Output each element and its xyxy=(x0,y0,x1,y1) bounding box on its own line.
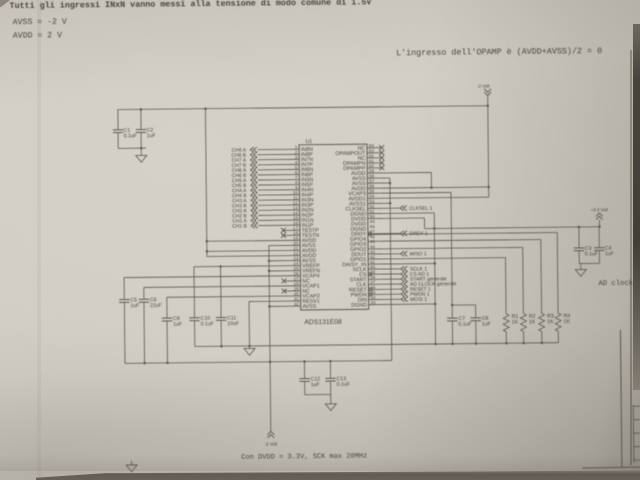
wire C4 bottom lead xyxy=(598,250,600,263)
wire C8 top lead xyxy=(475,305,477,318)
ground (C3 C4) xyxy=(575,270,586,277)
wire R3 bottom lead xyxy=(541,331,543,342)
frame border bottom xyxy=(582,467,640,468)
node junction +3.3V / DVDD rail xyxy=(598,226,601,229)
frame revision row 2 xyxy=(633,419,640,421)
wire pin54 AVDD1 xyxy=(368,197,489,198)
resistor R2 1K xyxy=(520,314,526,332)
wire AVSS right rail vertical xyxy=(390,178,392,361)
node junction C2 / top wire xyxy=(140,108,143,111)
ground (C12 C13) xyxy=(325,404,336,411)
connector CH7 A xyxy=(250,157,253,162)
node junction AVDD rail / top wire xyxy=(204,107,207,110)
paper subtle left fold shading xyxy=(37,0,41,480)
wire pin28 VCAP1 to C6 xyxy=(144,286,301,288)
node junction AVSS rail / bottom AVSS wire xyxy=(269,361,272,364)
resistor R3 1K xyxy=(539,313,545,331)
capacitor C2 1uF xyxy=(136,129,146,131)
wire C9 bottom lead xyxy=(166,321,168,363)
capacitor C4 1uF xyxy=(594,247,604,249)
no-connect X pin64 xyxy=(379,145,384,150)
connector RESET 1 xyxy=(401,287,404,292)
wire pin20 AVSS xyxy=(269,244,300,246)
node junction DVDD / DGND vertical crossing xyxy=(433,227,436,230)
node junction -2V rail / top wire xyxy=(487,104,490,107)
wire AVSS rail vertical xyxy=(269,246,271,432)
wire C13 bottom lead xyxy=(330,381,332,394)
wire pin58 AVSS xyxy=(367,177,389,179)
wire C4 top lead xyxy=(598,227,600,248)
wire top -2V horizontal rail xyxy=(118,106,488,110)
wire C3 top lead xyxy=(578,227,580,248)
wire pin19 AVDD xyxy=(207,239,300,242)
node junction pin19 xyxy=(206,240,209,243)
wire pin12 IN3P xyxy=(258,204,299,206)
wire C11 top lead xyxy=(220,266,223,317)
wire C7 bottom lead xyxy=(451,321,453,344)
photo dark edge right xyxy=(633,24,640,390)
connector CH2 B xyxy=(251,213,254,218)
wire pin55 VCAP3 xyxy=(368,191,451,194)
wire C1 bottom lead xyxy=(117,133,119,149)
no-connect X pin63 xyxy=(379,150,384,155)
resistor R1 1K xyxy=(503,314,509,332)
wire +3.3V stem xyxy=(598,220,600,227)
frame revision row 5 xyxy=(634,459,640,461)
connector CH3 B xyxy=(251,203,254,208)
frame revision row 1 xyxy=(633,405,640,407)
wire C13 ground stem xyxy=(330,394,332,403)
connector CH8 A xyxy=(250,147,253,152)
wire pin51 DGND xyxy=(368,212,434,215)
ground (RESV1 / DGND) xyxy=(244,348,255,355)
pin47 active-low bubble xyxy=(368,232,371,235)
node junction pin59/pin56 wire xyxy=(430,186,433,189)
connector CH7 B xyxy=(250,162,253,167)
connector MISO 1 xyxy=(401,251,404,256)
capacitor C10 0.1uF xyxy=(189,317,199,319)
wire R1 top lead xyxy=(504,258,507,314)
wire pin40 SCLK xyxy=(368,268,400,270)
node junction R3 bottom xyxy=(541,342,544,345)
wire pin46 GPIO4 to R4 xyxy=(368,233,557,235)
wire ground stem C1C2 xyxy=(140,148,142,155)
wire pin63 stub (no connect) xyxy=(367,152,380,154)
no-connect X pin27 xyxy=(282,279,287,284)
wire pin34 DIN xyxy=(369,298,401,300)
wire pin35 PWDN xyxy=(369,293,401,295)
node junction C3 top xyxy=(578,226,581,229)
node junction -2V rail / pin56 xyxy=(487,186,490,189)
frame revision box column xyxy=(632,405,635,463)
capacitor C9 1uF xyxy=(162,317,172,319)
no-connect X pin29 xyxy=(282,289,287,294)
connector CH4 A xyxy=(251,188,254,193)
top left corner nub xyxy=(0,0,10,7)
node junction C12 top xyxy=(303,360,306,363)
wire pin15 IN1N xyxy=(258,219,299,221)
connector AD CLOCK generale xyxy=(401,281,404,286)
wire C6 top lead xyxy=(143,287,145,299)
wire R1 bottom lead xyxy=(505,332,507,343)
wire pin7 IN5N xyxy=(258,179,299,181)
resistor R4 1K xyxy=(555,313,561,331)
wire C1 top lead xyxy=(117,110,119,130)
wire AVDD rail vertical xyxy=(205,109,207,257)
no-connect X pin17 xyxy=(281,228,286,233)
wire pin5 IN6N xyxy=(258,168,299,170)
wire RESV1 stem xyxy=(248,302,250,349)
connector CH6 A xyxy=(251,167,254,172)
pin35 active-low bubble xyxy=(369,293,372,296)
wire pin41 DAISY_IN xyxy=(368,262,434,265)
connector CH1 B xyxy=(251,223,254,228)
node junction C6 bottom xyxy=(143,362,146,365)
wire C2 bottom lead xyxy=(140,132,142,148)
wire pin45 GPIO3 to R3 xyxy=(368,239,541,241)
node junction C2 bottom xyxy=(140,147,143,150)
connector CH3 A xyxy=(251,198,254,203)
wire pin4 IN7P xyxy=(258,163,299,165)
wire pin9 IN4N xyxy=(258,189,299,191)
connector CH6 B xyxy=(251,172,254,177)
wire pin53 AVSS1 xyxy=(368,202,390,204)
node junction R1 bottom xyxy=(505,342,508,345)
power symbol -2 Volt (bottom) xyxy=(267,431,274,434)
node junction C13 top xyxy=(329,360,332,363)
wire pin31 RESV1 xyxy=(249,300,301,303)
wire pin57 AVSS xyxy=(367,182,389,184)
wire pin26 VCAP4 to C5 xyxy=(124,276,300,278)
frame revision row 4 xyxy=(634,446,640,448)
node junction DGND vertical / DGND rail xyxy=(434,343,437,346)
wire pin32 AVSS xyxy=(269,305,300,307)
wire pin29 stub (no connect) xyxy=(284,290,300,292)
wire C12 top lead xyxy=(303,361,305,378)
wire C7-C8 top rail xyxy=(452,304,475,306)
connector CLKSEL 1 xyxy=(400,206,403,211)
wire pin64 stub (no connect) xyxy=(367,147,380,149)
wire pin52 CLKSEL xyxy=(368,207,400,209)
ground (C1 C2) xyxy=(136,155,147,162)
connector CH5 A xyxy=(251,177,254,182)
node junction pin23 xyxy=(268,260,271,263)
pin36 active-low bubble xyxy=(369,288,372,291)
node junction pin33 xyxy=(434,303,437,306)
wire C3C4 ground stem xyxy=(580,264,582,270)
wire pin3 IN7N xyxy=(258,158,299,160)
wire DGND bottom rail xyxy=(195,343,559,347)
wire C3-C4 bottom xyxy=(579,262,599,264)
frame border right vertical xyxy=(620,330,621,467)
wire pin1 IN8N xyxy=(258,148,299,150)
connector CS AD 1 xyxy=(401,271,404,276)
wire C12-C13 bottom xyxy=(305,393,331,395)
wire pin27 stub (no connect) xyxy=(284,280,300,282)
wire R2 top lead xyxy=(522,247,525,313)
no-connect X pin62 xyxy=(379,155,384,160)
capacitor C5 1uF xyxy=(119,298,129,300)
capacitor C8 1uF xyxy=(471,317,481,319)
U1 left pin numbers xyxy=(292,145,299,307)
connector MOSI 1 xyxy=(401,297,404,302)
node junction C11 top xyxy=(219,265,222,268)
ground (floating, bottom left) xyxy=(131,461,133,465)
photo dark edge bottom xyxy=(36,469,640,480)
soft shadow above bottom edge xyxy=(0,455,640,471)
wire C10 bottom lead xyxy=(194,321,196,347)
wire pin14 IN2P xyxy=(258,214,299,216)
wire C3 bottom lead xyxy=(578,251,580,264)
wire R4 bottom lead xyxy=(557,331,559,342)
capacitor C1 0.1uF xyxy=(113,129,123,131)
wire pin22 AVDD xyxy=(207,255,300,258)
wire pin60 stub (no connect) xyxy=(367,167,380,169)
wire pin21 AVDD xyxy=(207,249,300,252)
wire C2 top lead xyxy=(140,109,142,129)
wire pin43 DOUT xyxy=(368,253,400,255)
wire pin56 AVDD to -2V rail xyxy=(367,187,488,188)
wire pin39 CS xyxy=(368,273,400,275)
wire pin62 stub (no connect) xyxy=(367,157,380,159)
U1 left pin names xyxy=(301,147,321,310)
wire pin17 stub (no connect) xyxy=(283,229,299,231)
capacitor C13 0.1uF xyxy=(325,377,335,379)
connector START generale xyxy=(401,276,404,281)
wire VCAP3 vertical to C7 xyxy=(451,192,452,318)
wire pin18 stub (no connect) xyxy=(283,234,299,236)
node junction pin25 xyxy=(268,270,271,273)
wire R3 top lead xyxy=(540,239,543,313)
pin39 active-low bubble xyxy=(369,273,372,276)
wire pin25 VREFN xyxy=(269,270,300,272)
connector SCLK 1 xyxy=(401,266,404,271)
node junction C11 bottom xyxy=(220,345,223,348)
wire AVSS bottom rail xyxy=(125,361,392,364)
wire C6 bottom lead xyxy=(143,302,146,363)
wire pin11 IN3N xyxy=(258,199,299,201)
wire pin44 GPIO2 to R2 xyxy=(368,247,523,249)
wire C5 bottom lead xyxy=(123,302,126,363)
wire pin59 drop xyxy=(430,172,432,187)
wire pin23 AVSS xyxy=(269,260,300,262)
wire C1-C2 bottom xyxy=(118,147,146,149)
capacitor C6 22uF xyxy=(139,298,149,300)
wire pin36 RESET xyxy=(369,288,401,290)
op-amp/ADC U1 ADS131E08 body xyxy=(299,144,369,310)
wire -2V rail vertical (top right) xyxy=(488,95,489,197)
node junction C7/C8 rail xyxy=(451,304,454,307)
no-connect X pin61 xyxy=(379,160,384,165)
wire pin6 IN6P xyxy=(258,174,299,176)
wire pin47 DRDY xyxy=(368,232,400,234)
wire pin61 stub (no connect) xyxy=(367,162,380,164)
connector CH2 A xyxy=(251,208,254,213)
node junction pin53 xyxy=(389,202,392,205)
node junction R2 bottom xyxy=(522,342,525,345)
wire pin2 IN8P xyxy=(258,153,299,155)
wire pin16 IN1P xyxy=(258,224,299,226)
node junction pin57 xyxy=(389,182,392,185)
capacitor C12 1uF xyxy=(299,378,309,380)
node junction pin32 xyxy=(268,305,271,308)
wire C13 top lead xyxy=(329,361,331,378)
node junction pin41 xyxy=(433,262,436,265)
connector PWDN 1 xyxy=(401,292,404,297)
wire C5 top lead xyxy=(123,278,125,300)
wire DGND right vertical xyxy=(434,213,435,344)
wire pin59 AVDD xyxy=(367,171,431,174)
wire DVDD rail to +3.3V xyxy=(425,227,600,229)
wire C12 bottom lead xyxy=(304,381,306,394)
wire pin13 IN2N xyxy=(258,209,299,211)
wire C10 top lead xyxy=(193,267,196,318)
wire pin42 GPIO1 to R1 xyxy=(368,258,505,259)
node junction RESV1 / DGND wire xyxy=(248,345,251,348)
wire C11 bottom lead xyxy=(220,320,222,346)
frame revision row 3 xyxy=(634,432,640,434)
capacitor C3 0.1uF xyxy=(574,247,584,249)
wire pin8 IN5P xyxy=(258,184,299,186)
connector DRDY 1 xyxy=(400,231,403,236)
capacitor C11 10uF xyxy=(216,316,226,318)
connector CH4 B xyxy=(251,193,254,198)
connector CH8 B xyxy=(250,152,253,157)
wire pin38 START xyxy=(368,278,400,280)
U1 right pin names xyxy=(335,146,367,309)
U1 right pin numbers xyxy=(369,143,376,305)
node junction C8 bottom xyxy=(475,342,478,345)
node junction C9 bottom xyxy=(166,362,169,365)
node junction pin21 xyxy=(206,250,209,253)
wire R4 top lead xyxy=(556,233,559,314)
wire pin10 IN4P xyxy=(258,194,299,196)
wire C8 bottom lead xyxy=(475,321,477,344)
wire pin33 DGND xyxy=(369,303,435,306)
node junction C7 bottom xyxy=(451,343,454,346)
connector CH1 A xyxy=(251,218,254,223)
capacitor C7 0.1uF xyxy=(447,317,457,319)
wire pin30 VCAP2 to C9 xyxy=(167,296,301,297)
wire DVDD drop xyxy=(423,218,425,229)
no-connect X pin18 xyxy=(281,233,286,238)
wire pin24 VREFP to C10/C11 xyxy=(194,266,300,267)
wire C9 top lead xyxy=(166,297,168,318)
wire pin50 DVDD xyxy=(368,217,425,220)
no-connect X pin60 xyxy=(379,165,384,170)
wire R2 bottom lead xyxy=(523,332,525,343)
wire pin37 CLK xyxy=(368,283,400,285)
connector CH5 B xyxy=(251,182,254,187)
